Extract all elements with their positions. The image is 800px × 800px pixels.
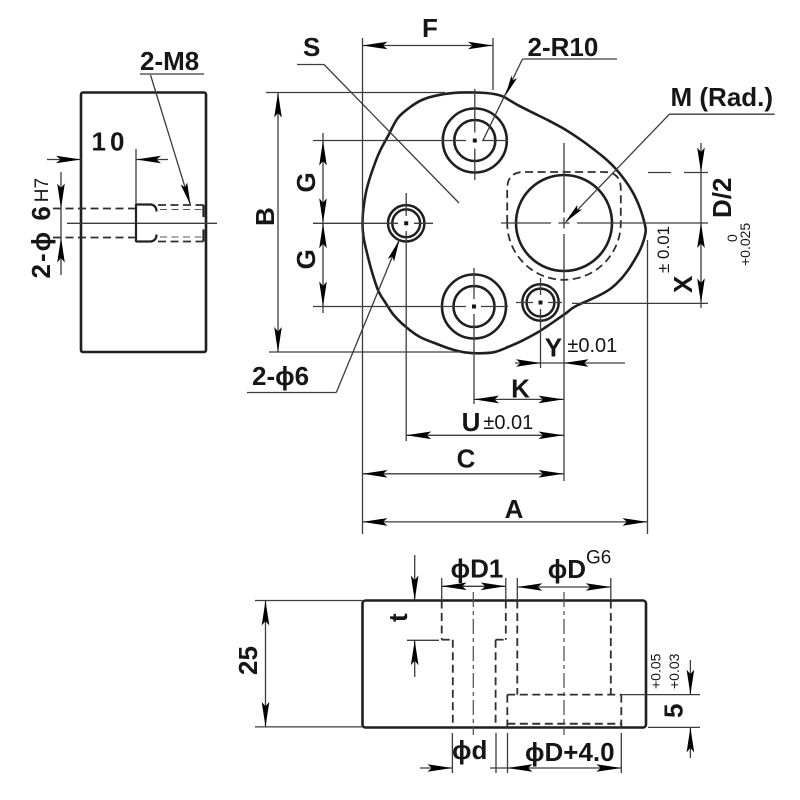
svg-text:F: F xyxy=(422,13,438,43)
svg-text:ϕd: ϕd xyxy=(452,735,487,765)
svg-text:+0.03: +0.03 xyxy=(666,653,682,689)
svg-text:G: G xyxy=(291,172,321,192)
svg-text:± 0.01: ± 0.01 xyxy=(654,226,673,273)
svg-text:±0.01: ±0.01 xyxy=(567,335,617,357)
svg-text:C: C xyxy=(457,444,476,474)
svg-text:S: S xyxy=(303,32,320,62)
svg-text:ϕD+4.0: ϕD+4.0 xyxy=(525,737,615,767)
svg-text:U: U xyxy=(462,407,481,437)
svg-text:K: K xyxy=(511,374,530,404)
svg-text:5: 5 xyxy=(659,704,689,718)
svg-text:25: 25 xyxy=(233,646,263,675)
svg-text:M (Rad.): M (Rad.) xyxy=(671,82,774,112)
svg-text:10: 10 xyxy=(92,127,129,157)
svg-text:G6: G6 xyxy=(586,548,611,569)
svg-text:+0.05: +0.05 xyxy=(648,653,664,689)
svg-text:G: G xyxy=(291,249,321,269)
svg-text:A: A xyxy=(505,494,524,524)
svg-text:Y: Y xyxy=(545,333,562,363)
svg-text:D/2: D/2 xyxy=(707,178,737,218)
svg-text:2-M8: 2-M8 xyxy=(140,46,199,76)
svg-text:ϕD: ϕD xyxy=(548,554,586,584)
svg-text:2-ϕ6: 2-ϕ6 xyxy=(252,361,309,391)
svg-text:X: X xyxy=(668,275,698,293)
svg-text:t: t xyxy=(383,613,413,622)
svg-text:ϕD1: ϕD1 xyxy=(451,554,504,584)
svg-text:±0.01: ±0.01 xyxy=(483,412,533,434)
svg-text:B: B xyxy=(250,207,280,226)
svg-text:2-R10: 2-R10 xyxy=(528,32,599,62)
